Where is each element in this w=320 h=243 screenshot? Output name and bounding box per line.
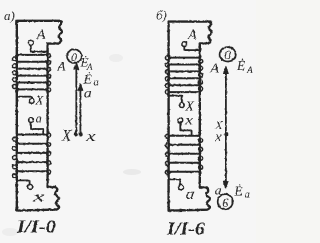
terminal a2 (secondary start at bottom)	[179, 185, 184, 190]
svg-text:A: A	[36, 28, 46, 43]
svg-text:A: A	[86, 62, 93, 72]
label x2	[184, 112, 193, 127]
clock position circle 6 (bottom)	[218, 194, 233, 209]
label A2	[187, 28, 197, 43]
label a2	[186, 186, 195, 203]
node X2 label	[214, 118, 223, 132]
svg-text:a: a	[245, 190, 250, 201]
svg-text:X: X	[61, 126, 72, 145]
primary winding W3 left loops	[165, 56, 169, 94]
transformer core T1 (torn outline)	[17, 21, 62, 211]
secondary winding W2 left loops	[13, 137, 17, 178]
svg-text:a: a	[84, 87, 92, 102]
label б)	[156, 8, 167, 23]
node x label	[85, 129, 96, 145]
faint scan smudges	[2, 54, 141, 236]
svg-text:a: a	[186, 186, 195, 203]
terminal X (primary end)	[29, 99, 34, 104]
wire winding W4 to terminal a2	[169, 179, 181, 184]
svg-text:A: A	[246, 66, 253, 76]
terminal A2 (primary start)	[182, 42, 187, 47]
svg-text:x: x	[85, 129, 96, 145]
wire a to winding W2	[31, 123, 43, 134]
label X2	[184, 99, 194, 114]
svg-text:a: a	[36, 112, 42, 126]
transformer core T2 (torn outline)	[169, 22, 212, 211]
node a label	[84, 87, 92, 102]
svg-text:x: x	[184, 112, 193, 127]
secondary winding W4 left loops	[165, 134, 169, 174]
svg-text:x: x	[31, 189, 45, 205]
terminal x (secondary end)	[28, 184, 33, 189]
wire A2 to winding W3	[184, 47, 200, 51]
primary winding W3 turns	[169, 58, 200, 93]
svg-text:б): б)	[156, 8, 167, 23]
node A2 label	[209, 61, 219, 76]
svg-text:x: x	[214, 129, 222, 144]
label a	[36, 112, 42, 126]
vector E_A (arrow up)	[74, 62, 79, 134]
label E_A2	[236, 58, 253, 76]
svg-text:a: a	[94, 78, 99, 89]
svg-text:A: A	[209, 61, 219, 76]
wire winding W3 to terminal X2	[170, 96, 182, 103]
node X label	[61, 126, 72, 145]
svg-text:A: A	[187, 28, 197, 43]
terminal X2 (primary end)	[179, 103, 184, 108]
node A label	[57, 59, 66, 74]
label x	[31, 189, 45, 205]
svg-text:Ė: Ė	[236, 58, 246, 73]
wire x2 to winding W4	[180, 123, 191, 135]
primary winding W1 turns	[17, 55, 48, 90]
secondary winding W4 turns	[169, 136, 200, 172]
svg-text:0: 0	[224, 47, 231, 62]
svg-text:6: 6	[222, 196, 229, 210]
label E_A	[80, 55, 94, 73]
wire winding W2 to terminal x	[17, 180, 30, 184]
svg-text:0: 0	[71, 50, 77, 64]
svg-text:X: X	[35, 94, 45, 108]
primary winding W1 right loops	[47, 54, 51, 92]
node X dot	[74, 132, 78, 136]
wire winding W1 to terminal X	[18, 97, 32, 99]
clock position circle 0	[67, 49, 82, 63]
terminal a (secondary start)	[29, 118, 34, 123]
primary winding W1 left loops	[13, 57, 17, 89]
label X	[35, 94, 45, 108]
vector E_A2 (arrow up) and E_a2 (arrow down) shared line	[223, 66, 228, 188]
terminal x2 (secondary end, reversed)	[178, 118, 183, 123]
primary winding W3 right loops	[199, 59, 203, 91]
caption I/I-6	[166, 219, 205, 239]
svg-text:I/I-6: I/I-6	[166, 219, 205, 239]
label а)	[4, 8, 15, 23]
svg-text:A: A	[57, 59, 66, 74]
secondary winding W2 right loops	[47, 133, 51, 174]
vector E_a (arrow up)	[78, 84, 83, 135]
node x2 label	[214, 129, 222, 144]
wire A to winding W1	[31, 45, 48, 51]
caption I/I-0	[16, 216, 56, 236]
secondary winding W2 turns	[17, 135, 48, 172]
label A	[36, 28, 46, 43]
svg-text:Ė: Ė	[83, 72, 93, 88]
node a2 label	[215, 183, 223, 198]
svg-text:I/I-0: I/I-0	[16, 216, 56, 236]
svg-text:а): а)	[4, 8, 15, 23]
clock position circle 0 (top)	[220, 47, 236, 61]
label E_a2	[233, 184, 249, 201]
terminal A (primary start)	[28, 40, 33, 45]
label E_a	[83, 72, 99, 89]
node x dot	[79, 133, 83, 137]
secondary winding W4 right loops	[199, 138, 203, 169]
node X2x2 dot	[224, 132, 228, 136]
svg-text:Ė: Ė	[233, 184, 243, 199]
